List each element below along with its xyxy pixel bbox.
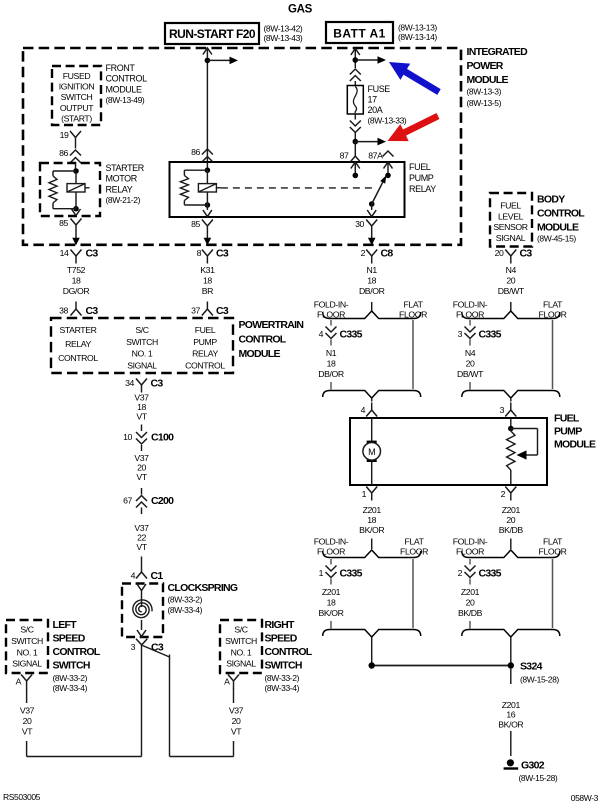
svg-text:16: 16 (506, 710, 515, 720)
svg-text:2: 2 (501, 489, 506, 499)
svg-text:K31: K31 (200, 265, 215, 275)
svg-text:20: 20 (495, 248, 504, 258)
connector chevrons on BATT wire (350, 69, 361, 86)
connector chevrons below fuse (350, 114, 361, 142)
wire stub below set2 (510, 398, 512, 402)
svg-text:3: 3 (458, 329, 463, 339)
connector pin 19 (60, 130, 81, 145)
wire V37 20 VT (134, 453, 149, 482)
svg-text:SWITCH: SWITCH (11, 636, 43, 646)
connector C3 pin 34 (125, 378, 163, 393)
svg-text:(8W-13-5): (8W-13-5) (467, 98, 502, 108)
svg-text:N4: N4 (465, 348, 476, 358)
label FRONT CONTROL MODULE (106, 63, 148, 105)
svg-text:IGNITION: IGNITION (59, 82, 95, 92)
powertrain control module box (51, 318, 233, 373)
svg-text:FLOOR: FLOOR (317, 547, 345, 557)
svg-text:DG/OR: DG/OR (63, 286, 90, 296)
svg-text:VT: VT (136, 542, 147, 552)
svg-text:4: 4 (361, 405, 366, 415)
svg-text:STARTER: STARTER (106, 163, 145, 173)
text S/C SWITCH NO.1 SIGNAL left (11, 625, 43, 669)
svg-text:SPEED: SPEED (53, 633, 86, 645)
svg-text:22: 22 (137, 533, 146, 543)
svg-text:87: 87 (340, 151, 349, 161)
wire V37 22 VT (134, 523, 149, 552)
fuel pump relay box (170, 162, 405, 217)
svg-text:PUMP: PUMP (193, 337, 217, 347)
svg-text:30: 30 (355, 219, 364, 229)
svg-text:87A: 87A (368, 151, 383, 161)
svg-text:FUEL: FUEL (500, 201, 521, 211)
svg-text:FLOOR: FLOOR (400, 547, 428, 557)
svg-text:FLOOR: FLOOR (539, 547, 567, 557)
pin 85 starter relay (59, 209, 81, 233)
connector C8 pin 2 (361, 248, 394, 264)
svg-text:1: 1 (319, 568, 324, 578)
svg-text:FUEL: FUEL (195, 325, 216, 335)
wire V37 20 VT right (229, 706, 244, 737)
label RIGHT SPEED CONTROL SWITCH (265, 619, 313, 693)
svg-text:FLAT: FLAT (404, 300, 424, 310)
footer RS503005 (3, 792, 41, 802)
connector C3 pin 20 (495, 248, 533, 264)
svg-text:T752: T752 (67, 265, 86, 275)
svg-text:C3: C3 (216, 305, 229, 317)
svg-text:20: 20 (466, 359, 475, 369)
svg-text:RELAY: RELAY (192, 349, 218, 359)
wire 19 to 86 (75, 145, 77, 149)
node above fuel pump relay (353, 139, 359, 145)
wire stub above set1 (371, 302, 373, 312)
wire RUN-START feed (206, 48, 208, 163)
svg-text:RUN-START F20: RUN-START F20 (169, 27, 256, 41)
svg-text:20: 20 (466, 598, 475, 608)
wire 30 to C8 pin 2 (368, 234, 376, 246)
svg-text:(8W-15-28): (8W-15-28) (519, 773, 558, 783)
connector C1 pin 4 (131, 557, 164, 583)
svg-text:(8W-33-2): (8W-33-2) (168, 595, 203, 605)
svg-text:N1: N1 (367, 265, 378, 275)
svg-text:SWITCH: SWITCH (265, 660, 302, 672)
label CLOCKSPRING (168, 582, 238, 615)
svg-text:MODULE: MODULE (537, 222, 579, 234)
fuel level sensor (507, 418, 538, 485)
svg-text:MODULE: MODULE (554, 439, 596, 451)
svg-text:V37: V37 (20, 706, 35, 716)
svg-text:DB/WT: DB/WT (498, 286, 525, 296)
svg-text:(8W-15-28): (8W-15-28) (520, 675, 559, 685)
svg-text:RS503005: RS503005 (3, 792, 41, 802)
svg-text:A: A (16, 677, 22, 687)
svg-text:CONTROL: CONTROL (58, 353, 98, 363)
pin 86 fuel pump relay (191, 147, 213, 170)
svg-text:1: 1 (362, 489, 367, 499)
clockspring wire in (137, 584, 146, 607)
connector C3 pin 14 (60, 248, 99, 264)
label FUSE 17 20A (368, 84, 407, 126)
svg-text:PUMP: PUMP (554, 426, 582, 438)
svg-text:FLAT: FLAT (405, 537, 425, 547)
svg-text:BR: BR (202, 286, 213, 296)
svg-text:N4: N4 (506, 265, 517, 275)
svg-text:18: 18 (367, 515, 376, 525)
svg-text:Z201: Z201 (502, 700, 521, 710)
svg-text:BK/OR: BK/OR (359, 525, 384, 535)
svg-text:CONTROL: CONTROL (53, 646, 101, 658)
clockspring wire out (137, 620, 146, 637)
svg-text:MODULE: MODULE (239, 348, 281, 360)
fused ignition switch output box (52, 66, 101, 125)
power source box RUN-START F20 (165, 23, 259, 44)
svg-text:058W-3: 058W-3 (571, 793, 599, 803)
reference 8W-13-42/43 (264, 24, 303, 44)
svg-text:SPEED: SPEED (265, 633, 298, 645)
power source box BATT A1 (326, 22, 393, 43)
svg-text:V37: V37 (134, 523, 149, 533)
svg-text:(8W-13-33): (8W-13-33) (368, 116, 407, 126)
svg-text:19: 19 (60, 130, 69, 140)
svg-text:BATT A1: BATT A1 (333, 27, 385, 41)
text S/C SWITCH NO. 1 SIGNAL (126, 325, 158, 370)
svg-text:S/C: S/C (234, 625, 247, 635)
floor labels set3 (314, 537, 428, 557)
svg-text:20: 20 (137, 463, 146, 473)
svg-text:INTEGRATED: INTEGRATED (467, 46, 529, 58)
left speed control switch box (6, 620, 48, 673)
svg-text:10: 10 (123, 432, 132, 442)
svg-text:C335: C335 (479, 568, 502, 580)
footer 058W-3 (571, 793, 599, 803)
arrow into RUN-START (203, 48, 212, 55)
svg-text:POWERTRAIN: POWERTRAIN (239, 319, 304, 331)
body control module box (490, 193, 532, 247)
wire stub above set3 (371, 539, 373, 550)
svg-text:NO. 1: NO. 1 (132, 349, 153, 359)
starter relay coil circuit (49, 168, 90, 211)
svg-text:V37: V37 (134, 393, 149, 403)
wire N4 20 DB/WT labels (498, 265, 525, 296)
svg-text:2: 2 (361, 248, 366, 258)
branch arrow right from fuse node (355, 138, 386, 146)
relay coil-switch dashed link (221, 187, 374, 189)
label POWERTRAIN CONTROL MODULE (239, 319, 304, 360)
wire BATT feed upper (354, 48, 356, 68)
svg-text:SIGNAL: SIGNAL (226, 659, 256, 669)
svg-text:RELAY: RELAY (106, 184, 133, 194)
svg-text:(8W-13-14): (8W-13-14) (398, 32, 437, 42)
svg-text:18: 18 (137, 402, 146, 412)
svg-text:20A: 20A (368, 105, 383, 115)
svg-text:S324: S324 (520, 661, 543, 673)
svg-text:SIGNAL: SIGNAL (12, 659, 42, 669)
svg-text:C3: C3 (216, 248, 229, 260)
wire clockspring to right switch (143, 646, 234, 757)
svg-text:SIGNAL: SIGNAL (496, 233, 526, 243)
fuse F17 (347, 86, 363, 115)
svg-text:(8W-13-49): (8W-13-49) (106, 95, 145, 105)
connector C3 pin 8 (197, 248, 229, 264)
text FUEL LEVEL SENSOR SIGNAL (493, 201, 527, 243)
svg-text:DB/OR: DB/OR (359, 286, 385, 296)
connector C100 pin 10 (123, 425, 174, 452)
svg-text:Z201: Z201 (363, 505, 382, 515)
wire stub above set2 (510, 302, 512, 312)
svg-text:20: 20 (506, 276, 515, 286)
svg-text:Z201: Z201 (461, 587, 480, 597)
floor labels set1 (314, 300, 427, 320)
svg-text:67: 67 (123, 496, 132, 506)
svg-text:C1: C1 (151, 570, 164, 582)
svg-text:STARTER: STARTER (60, 325, 97, 335)
wire N1 18 DB/OR labels (359, 265, 385, 296)
connector pin A left (16, 675, 33, 689)
svg-text:VT: VT (22, 727, 33, 737)
node below BATT (353, 57, 359, 63)
svg-text:38: 38 (59, 306, 68, 316)
text FUEL PUMP RELAY CONTROL (185, 325, 225, 370)
fuel pump module pin 1 (362, 487, 378, 501)
svg-text:86: 86 (191, 147, 200, 157)
wire stub above set4 (510, 539, 512, 550)
pin 87A fuel pump relay (368, 151, 393, 179)
svg-text:(8W-33-4): (8W-33-4) (53, 683, 88, 693)
svg-text:20: 20 (23, 716, 32, 726)
svg-text:FOLD-IN-: FOLD-IN- (314, 300, 349, 310)
red annotation arrow (388, 113, 440, 141)
svg-text:18: 18 (367, 276, 376, 286)
blue annotation arrow (389, 62, 441, 95)
connector C200 pin 67 (123, 488, 174, 514)
svg-text:SWITCH: SWITCH (225, 636, 257, 646)
svg-text:C335: C335 (479, 329, 502, 341)
svg-text:FOLD-IN-: FOLD-IN- (453, 300, 488, 310)
svg-text:(START): (START) (61, 113, 92, 123)
arrow into BATT (351, 49, 360, 56)
svg-text:3: 3 (500, 405, 505, 415)
wire K31 18 BR (200, 265, 215, 296)
title GAS (288, 4, 313, 16)
fuel pump relay coil circuit (180, 167, 221, 207)
svg-text:(8W-33-4): (8W-33-4) (168, 605, 203, 615)
label BODY CONTROL MODULE (537, 194, 585, 244)
label STARTER MOTOR RELAY (106, 163, 145, 205)
svg-text:86: 86 (59, 148, 68, 158)
svg-text:18: 18 (72, 276, 81, 286)
svg-text:17: 17 (368, 95, 378, 105)
connector C335 pin 2 set (458, 550, 560, 637)
svg-text:85: 85 (59, 218, 68, 228)
wire V37 20 VT left (20, 706, 35, 737)
floor labels set4 (453, 537, 567, 557)
svg-text:2: 2 (458, 568, 463, 578)
svg-text:FLAT: FLAT (543, 300, 563, 310)
pin 86 starter relay (59, 148, 81, 171)
svg-text:SWITCH: SWITCH (61, 92, 93, 102)
svg-text:BK/DB: BK/DB (458, 608, 483, 618)
svg-text:(8W-13-13): (8W-13-13) (398, 23, 437, 33)
text STARTER RELAY CONTROL (58, 325, 98, 363)
svg-text:18: 18 (327, 598, 336, 608)
connector C3 pin 3 (131, 639, 164, 654)
wire T752 18 DG/OR (63, 265, 90, 296)
ground G302 symbol (504, 759, 519, 770)
svg-text:VT: VT (231, 727, 242, 737)
wire fuse node to pin 87 (354, 142, 356, 149)
svg-text:34: 34 (125, 378, 134, 388)
svg-text:BK/OR: BK/OR (498, 719, 523, 729)
branch arrow right from RUN-START node (207, 57, 238, 65)
svg-text:RIGHT: RIGHT (265, 619, 295, 631)
svg-text:(8W-13-3): (8W-13-3) (467, 87, 502, 97)
floor labels set2 (453, 300, 567, 320)
label G302 (519, 760, 558, 784)
svg-text:SIGNAL: SIGNAL (127, 360, 157, 370)
text FUSED IGNITION SWITCH OUTPUT (START) (59, 71, 95, 123)
svg-text:M: M (368, 447, 375, 457)
svg-text:(8W-33-2): (8W-33-2) (265, 673, 300, 683)
svg-text:C3: C3 (520, 248, 533, 260)
svg-text:RELAY: RELAY (65, 339, 91, 349)
svg-text:20: 20 (506, 515, 515, 525)
pin 30 fuel pump relay (355, 204, 377, 234)
svg-text:FOLD-IN-: FOLD-IN- (314, 537, 349, 547)
svg-text:4: 4 (131, 571, 136, 581)
svg-text:C335: C335 (340, 329, 363, 341)
label FUEL PUMP MODULE (554, 413, 596, 451)
relay switch arm (369, 175, 386, 207)
svg-text:VT: VT (136, 412, 147, 422)
text S/C SWITCH NO.1 SIGNAL right (225, 625, 257, 669)
svg-text:SWITCH: SWITCH (53, 660, 90, 672)
svg-text:N1: N1 (326, 348, 337, 358)
svg-text:BK/DB: BK/DB (499, 525, 524, 535)
wire Z201 20 BK/DB labels (499, 505, 524, 535)
svg-text:NO. 1: NO. 1 (231, 647, 252, 657)
svg-text:C3: C3 (86, 248, 99, 260)
svg-text:C335: C335 (340, 568, 363, 580)
wire set4 to splice (510, 637, 512, 663)
svg-text:FLOOR: FLOOR (456, 547, 484, 557)
svg-text:18: 18 (203, 276, 212, 286)
pin 87 fuel pump relay (340, 149, 361, 179)
svg-text:14: 14 (60, 248, 69, 258)
integrated power module box (23, 48, 461, 245)
svg-text:(8W-13-43): (8W-13-43) (264, 33, 303, 43)
svg-text:CLOCKSPRING: CLOCKSPRING (168, 582, 238, 594)
svg-text:C3: C3 (151, 378, 164, 390)
svg-text:V37: V37 (229, 706, 244, 716)
connector C335 pin 4 set (318, 311, 420, 398)
fuel pump motor M (363, 418, 381, 485)
svg-text:G302: G302 (521, 760, 545, 772)
wire 85 to C3 pin 8 (204, 234, 212, 246)
label LEFT SPEED CONTROL SWITCH (53, 619, 101, 693)
svg-text:(8W-21-2): (8W-21-2) (106, 195, 141, 205)
pin 85 fuel pump relay (191, 205, 213, 234)
svg-text:Z201: Z201 (322, 587, 341, 597)
svg-text:FUEL: FUEL (554, 413, 580, 425)
connector C3 pin 38 (59, 302, 98, 318)
svg-text:FLAT: FLAT (543, 537, 563, 547)
wire set3 to splice (371, 637, 373, 663)
fuel pump module pin 4 (361, 403, 378, 417)
svg-text:CONTROL: CONTROL (185, 360, 225, 370)
node below RUN-START (205, 58, 211, 64)
svg-text:POWER: POWER (467, 60, 504, 72)
label S324 (520, 661, 559, 685)
svg-text:MODULE: MODULE (467, 74, 509, 86)
svg-text:85: 85 (191, 219, 200, 229)
svg-text:(8W-13-42): (8W-13-42) (264, 24, 303, 34)
wire V37 18 VT (134, 393, 149, 422)
svg-text:C8: C8 (381, 248, 394, 260)
svg-text:C200: C200 (151, 495, 174, 507)
svg-text:V37: V37 (134, 453, 149, 463)
connector C335 pin 3 set (457, 311, 560, 398)
svg-text:SENSOR: SENSOR (493, 222, 527, 232)
svg-text:18: 18 (327, 359, 336, 369)
svg-text:CONTROL: CONTROL (537, 208, 585, 220)
label FUEL PUMP RELAY (409, 162, 436, 194)
wire Z201 18 BK/OR labels (359, 505, 384, 535)
connector pin A right (224, 675, 239, 689)
svg-text:4: 4 (319, 329, 324, 339)
svg-text:Z201: Z201 (502, 505, 521, 515)
svg-text:MODULE: MODULE (106, 84, 143, 94)
svg-text:LEVEL: LEVEL (498, 211, 524, 221)
svg-text:S/C: S/C (135, 325, 148, 335)
clockspring box (122, 584, 163, 638)
svg-text:FOLD-IN-: FOLD-IN- (453, 537, 488, 547)
wire 85 to C3 pin 14 (72, 233, 80, 246)
svg-text:DB/OR: DB/OR (318, 369, 344, 379)
svg-text:FRONT: FRONT (106, 63, 136, 73)
clockspring spiral (133, 600, 152, 618)
svg-text:OUTPUT: OUTPUT (60, 103, 94, 113)
label INTEGRATED POWER MODULE (467, 46, 529, 108)
svg-text:DB/WT: DB/WT (457, 369, 484, 379)
svg-text:MOTOR: MOTOR (106, 174, 138, 184)
svg-text:A: A (224, 677, 230, 687)
splice S324 wire (369, 662, 515, 668)
svg-text:CONTROL: CONTROL (239, 334, 287, 346)
right speed control switch box (220, 620, 262, 673)
svg-text:37: 37 (191, 306, 200, 316)
svg-text:CONTROL: CONTROL (106, 74, 148, 84)
connector C3 pin 37 (191, 302, 229, 318)
svg-text:LEFT: LEFT (53, 619, 78, 631)
wire stub below set1 (371, 398, 373, 402)
fuel pump module box (350, 418, 547, 485)
svg-text:C100: C100 (151, 432, 174, 444)
wire clockspring to left switch (27, 645, 142, 757)
svg-text:GAS: GAS (288, 4, 313, 16)
svg-text:CONTROL: CONTROL (265, 646, 313, 658)
starter motor relay box (40, 163, 100, 216)
svg-text:(8W-33-2): (8W-33-2) (53, 673, 88, 683)
svg-text:BODY: BODY (537, 194, 565, 206)
svg-text:20: 20 (232, 716, 241, 726)
svg-text:S/C: S/C (20, 625, 33, 635)
svg-text:C3: C3 (86, 305, 99, 317)
svg-text:SWITCH: SWITCH (126, 337, 158, 347)
svg-text:FUSE: FUSE (368, 84, 391, 94)
svg-text:FUEL: FUEL (409, 162, 431, 172)
svg-text:(8W-45-15): (8W-45-15) (537, 234, 576, 244)
svg-text:3: 3 (131, 642, 136, 652)
reference 8W-13-13/14 (398, 23, 437, 43)
